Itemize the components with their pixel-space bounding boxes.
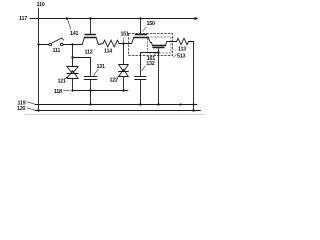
leader for label 121 — [65, 77, 68, 79]
leader for label 513 — [174, 54, 177, 58]
zener 121 bidirectional symbol — [67, 67, 78, 79]
wire: zener 121 top lead — [72, 58, 74, 67]
wire: node 151 down to zener 122 — [123, 44, 125, 65]
svg-text:113: 113 — [178, 47, 186, 53]
junction dot right vertical on bus 120 — [192, 109, 194, 111]
transistor 162 channel bar — [153, 45, 166, 47]
junction dot right vertical crossing bus 119 — [192, 103, 194, 105]
transistor 161 channel bar — [134, 37, 148, 39]
capacitor 132 top plate — [135, 76, 146, 78]
node at 162 gate — [157, 51, 159, 53]
junction dot cap131 on bus 119 — [89, 103, 91, 105]
wire: resistor 114 to node 151 — [119, 43, 124, 45]
leader for label 150 — [143, 27, 147, 32]
junction dot at switch row / input column — [37, 43, 39, 45]
leader for label 132 — [142, 66, 146, 72]
svg-text:141: 141 — [70, 31, 78, 37]
junction dot node after switch — [71, 43, 73, 45]
switch 111 blade barb — [62, 38, 64, 40]
svg-text:131: 131 — [97, 64, 105, 70]
leader dash for label 119 — [27, 102, 36, 105]
resistor 114 zigzag — [103, 40, 119, 47]
junction dot on top bus (label 141 target) — [66, 17, 68, 19]
wire: top bus 117 — [30, 18, 195, 20]
wire: branch right to capacitor 131 — [73, 57, 91, 59]
svg-text:151: 151 — [121, 32, 129, 38]
switch 111 blade — [52, 38, 62, 43]
junction dot gate lead on bus 119 — [157, 103, 159, 105]
junction dot zener 121 / node 118 — [71, 89, 73, 91]
junction dot cap132 on bus 119 — [139, 103, 141, 105]
svg-text:112: 112 — [85, 50, 93, 56]
wire: left column down to bus 120 — [38, 45, 40, 111]
junction dot zener 122 / node 118 — [122, 89, 124, 91]
wire: node 151 to transistor 161 — [124, 43, 132, 45]
capacitor 132 top lead — [140, 53, 142, 77]
transistor 112 gate lead to bus — [90, 19, 92, 35]
svg-text:114: 114 — [104, 49, 112, 55]
svg-text:110: 110 — [37, 2, 45, 8]
branch node dot — [71, 56, 73, 58]
node 151 junction — [122, 42, 124, 44]
svg-text:120: 120 — [17, 106, 25, 112]
junction dot gate 161 on top bus — [139, 17, 141, 19]
transistor 112 body (staple) — [82, 38, 98, 45]
transistor 162 gate lead down — [158, 48, 160, 53]
capacitor 131 bottom lead to bus 119 — [90, 80, 92, 105]
capacitor 132 bottom plate — [135, 79, 146, 81]
transistor 162 gate bar — [153, 47, 164, 49]
faint page bottom rule — [25, 114, 205, 116]
node 118 wire — [73, 90, 129, 92]
capacitor 131 bottom plate — [84, 79, 97, 81]
wire: 162 to resistor 113 — [167, 41, 177, 43]
resistor 113 zigzag — [177, 38, 189, 44]
svg-text:121: 121 — [58, 79, 66, 85]
transistor 161 body (staple) — [132, 38, 151, 44]
transistor 161 gate lead to bus — [140, 19, 142, 35]
transistor 162 body (staple, inverted) — [151, 42, 166, 46]
capacitor 131 top plate — [84, 76, 97, 78]
wire: gate node left branch to capacitor 132 column — [141, 52, 159, 54]
svg-text:111: 111 — [53, 48, 61, 54]
transistor 112 gate bar — [85, 34, 95, 36]
bus 119 — [35, 104, 197, 106]
leader for label 122 — [117, 75, 121, 78]
svg-text:117: 117 — [19, 16, 27, 22]
switch 111 right contact — [61, 43, 64, 46]
arrowhead at right end of bus 117 — [195, 17, 199, 20]
wire: resistor 113 to right corner — [189, 41, 194, 43]
wire: zener 121 bottom lead — [72, 79, 74, 91]
svg-text:513: 513 — [177, 54, 185, 60]
wire: node down to branch node — [72, 45, 74, 58]
svg-text:122: 122 — [110, 77, 118, 83]
svg-text:150: 150 — [147, 21, 155, 27]
switch 111 left contact — [49, 43, 52, 46]
wire: input line 110 vertical — [38, 8, 40, 45]
junction dot gate 112 on top bus — [89, 17, 91, 19]
svg-text:132: 132 — [146, 61, 154, 67]
capacitor 132 bottom lead to bus 119 — [140, 80, 142, 105]
svg-text:118: 118 — [54, 89, 62, 95]
leader for label 131 — [94, 69, 99, 76]
leader dash for label 120 — [27, 108, 36, 111]
dashed box 150 — [129, 34, 173, 56]
leader for label 151 — [123, 38, 125, 42]
capacitor 131 top lead — [90, 58, 92, 77]
wire: right vertical down to bus 120 — [193, 42, 195, 111]
junction dot left column on bus 120 — [37, 109, 39, 111]
transistor 161 gate bar — [136, 34, 147, 36]
leader for label 161 — [154, 53, 156, 56]
zener 122 bottom lead to node 118 wire — [123, 77, 125, 91]
zener 122 bidirectional symbol — [119, 65, 129, 77]
wire: switch to node — [63, 44, 82, 46]
junction dot cap131 / node 118 — [89, 89, 91, 91]
junction dot on bus 119 — [179, 103, 181, 105]
leader for label 141 — [68, 20, 72, 30]
wire: switch row — [39, 44, 50, 46]
leader dash for label 118 — [64, 90, 71, 92]
inner dashed box around transistor 162 — [148, 37, 172, 53]
wire: 161 to 162 — [150, 42, 151, 44]
wire: 112 to resistor 114 — [98, 44, 103, 45]
wire: gate node down to bus 119 — [158, 53, 160, 105]
transistor 112 channel bar — [84, 37, 96, 39]
bus 120 — [35, 110, 201, 112]
